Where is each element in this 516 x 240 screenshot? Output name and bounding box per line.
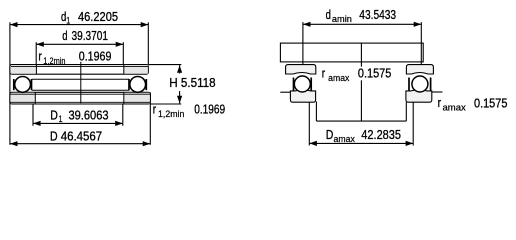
svg-text:1: 1 — [66, 16, 70, 27]
svg-text:r: r — [153, 103, 156, 117]
svg-text:d: d — [326, 8, 331, 22]
svg-text:r: r — [322, 67, 325, 81]
svg-text:amin: amin — [332, 14, 352, 25]
svg-text:39.6063: 39.6063 — [69, 109, 109, 123]
svg-text:amax: amax — [334, 134, 356, 145]
svg-text:39.3701: 39.3701 — [72, 29, 109, 43]
svg-text:1,2min: 1,2min — [158, 109, 184, 120]
svg-text:0.1575: 0.1575 — [474, 97, 507, 111]
svg-text:r: r — [38, 49, 41, 63]
svg-text:H 5.5118: H 5.5118 — [169, 76, 215, 90]
svg-text:r: r — [438, 96, 441, 110]
svg-text:0.1969: 0.1969 — [194, 103, 225, 117]
svg-text:d: d — [62, 29, 67, 43]
svg-text:D: D — [50, 129, 58, 143]
svg-text:0.1575: 0.1575 — [358, 67, 391, 81]
svg-text:1,2min: 1,2min — [43, 56, 65, 67]
svg-text:amax: amax — [443, 102, 467, 113]
svg-text:D: D — [50, 109, 58, 123]
svg-text:0.1969: 0.1969 — [79, 49, 112, 63]
svg-text:43.5433: 43.5433 — [359, 8, 396, 22]
svg-text:1: 1 — [59, 114, 63, 125]
svg-text:42.2835: 42.2835 — [361, 128, 401, 142]
svg-text:46.4567: 46.4567 — [61, 129, 103, 143]
svg-text:46.2205: 46.2205 — [78, 10, 118, 24]
svg-text:D: D — [326, 128, 334, 142]
svg-text:amax: amax — [328, 73, 350, 84]
